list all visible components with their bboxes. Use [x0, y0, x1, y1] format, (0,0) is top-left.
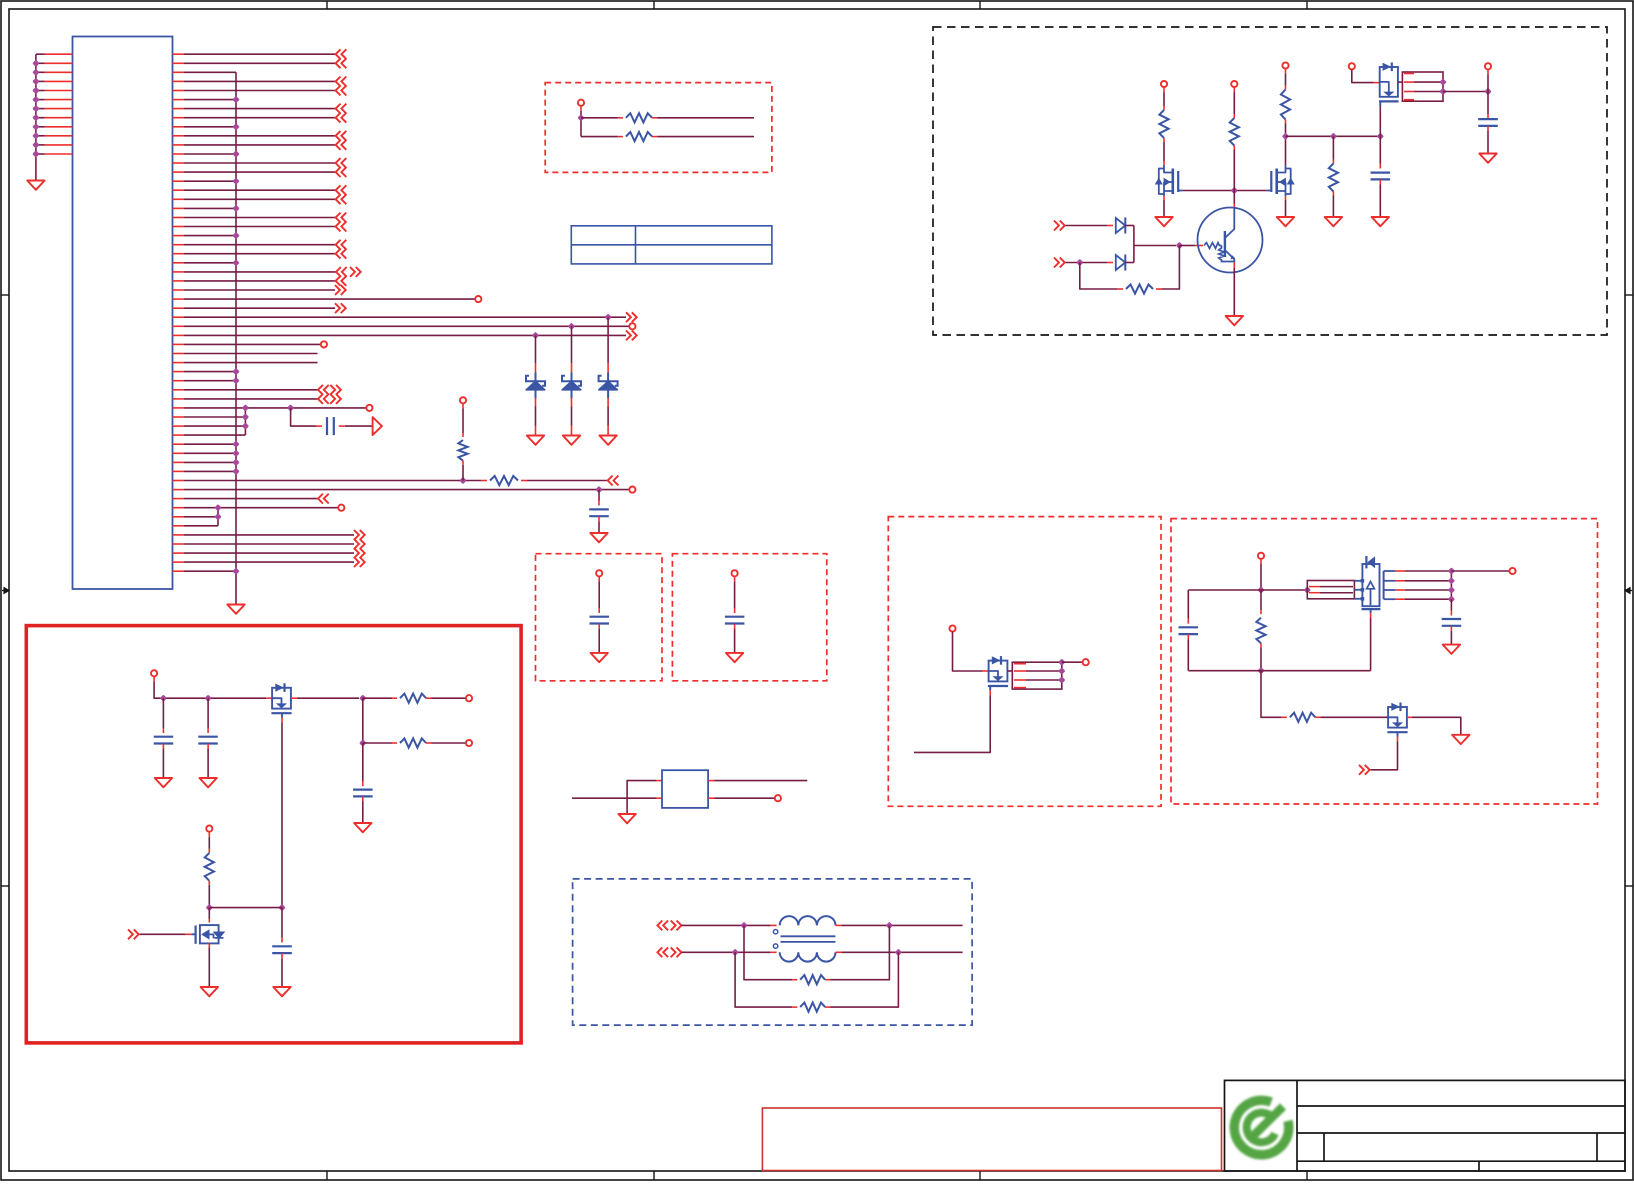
wire chevron to M5 gate	[140, 933, 192, 935]
wire R13 to ground	[1332, 192, 1334, 218]
chevron out row 37	[330, 385, 341, 395]
connector U1 right pin stubs	[173, 54, 185, 571]
junction base node	[1176, 242, 1183, 249]
filter U2 body	[662, 770, 708, 808]
wire M3 gate down to C7	[1379, 105, 1381, 169]
wire M6 drain to RP2	[1007, 670, 1012, 672]
junction zener D3 tap	[604, 314, 611, 321]
ground Q4 emitter	[1226, 316, 1243, 325]
junction P6 node	[577, 114, 584, 121]
ground C11	[155, 778, 172, 787]
junction left bus pin 10	[32, 132, 39, 139]
junction bus row 43	[232, 441, 239, 448]
port P17	[206, 826, 212, 832]
port row 30	[629, 323, 635, 329]
wire diode cathode join	[1133, 226, 1135, 263]
port resistor R7 top	[460, 397, 466, 403]
capacitor C15	[1442, 618, 1462, 620]
junction left bus pin 11	[32, 141, 39, 148]
wire C9 to ground	[598, 624, 600, 653]
junction bus row 20	[232, 232, 239, 239]
wire pin row 42	[184, 434, 245, 436]
wire P9 to R12	[1285, 69, 1287, 90]
diode D4	[1116, 218, 1126, 234]
wire M5 drain	[208, 908, 210, 923]
title block	[1225, 1080, 1626, 1171]
wire M3 drain to RP1	[1398, 81, 1403, 83]
junction bus row 36	[232, 377, 239, 384]
resistor pack RP3	[1307, 581, 1354, 599]
wire U2 right lower	[708, 797, 774, 799]
junction bus row 14	[232, 178, 239, 185]
sheet entry chevron pin row 15	[336, 185, 347, 195]
resistor pack RP1	[1402, 72, 1443, 101]
sheet entry chevron pin row 10	[336, 140, 347, 150]
junction bus row 5	[232, 96, 239, 103]
red dashed box load switch B	[1171, 519, 1598, 804]
wire R10 to Q2 drain	[1163, 138, 1165, 165]
capacitor C12	[198, 736, 218, 738]
junction left bus pin 9	[32, 123, 39, 130]
wire bottom rail	[1188, 670, 1370, 672]
wire P7 to R10	[1163, 87, 1165, 110]
diode D5	[1116, 255, 1126, 271]
chevron out row 28	[335, 303, 346, 313]
junction R12 node	[1282, 133, 1289, 140]
wire left pin bus to ground	[35, 54, 37, 180]
chevron in diode D5	[1054, 258, 1065, 268]
capacitor C6	[589, 508, 609, 510]
port row 50	[338, 505, 344, 511]
ground C14	[273, 987, 290, 996]
wire C10 to ground	[734, 624, 736, 653]
wire C14 to ground	[281, 953, 283, 987]
junction D5 anode tap	[1076, 259, 1083, 266]
sheet entry chevron pin row 4	[336, 86, 347, 96]
wire pin row 34	[184, 362, 318, 364]
chevron out T1 b	[671, 947, 682, 957]
wire port to resistor R7	[462, 404, 464, 438]
wire R14 to base node	[1156, 246, 1179, 290]
ground left pin bus	[27, 181, 44, 190]
wire C11 to ground	[162, 744, 164, 778]
red dashed box bulk cap 2	[672, 554, 826, 681]
chevron in row 49	[318, 494, 329, 504]
junction bottom rail	[1257, 667, 1264, 674]
wire R8 left	[581, 117, 623, 119]
red highlight box	[26, 626, 521, 1043]
junction bus row 35	[232, 368, 239, 375]
wire node 136 bus	[1286, 135, 1381, 137]
port P22	[1509, 568, 1515, 574]
zener D1	[526, 335, 545, 435]
wire pin row 38	[184, 398, 318, 400]
resistor R18	[800, 975, 825, 984]
wire out to C15	[1450, 599, 1452, 615]
notes box	[762, 1108, 1221, 1171]
port row 27	[475, 296, 481, 302]
zener D3	[599, 317, 618, 435]
wire R12 to node	[1285, 120, 1287, 166]
wire C13 to ground	[362, 797, 364, 824]
wire T1 row1 left	[681, 924, 776, 926]
wires right pins to sheet-entry chevrons	[184, 54, 336, 281]
port P20	[1083, 659, 1089, 665]
red dashed box load switch A	[888, 517, 1161, 807]
chevron in M5 gate	[128, 929, 139, 939]
junction bus row 8	[232, 123, 239, 130]
junction left bus pin 6	[32, 96, 39, 103]
resistor R19	[800, 1003, 825, 1012]
junction T1 row1 left	[740, 922, 747, 929]
wire pin row 51	[184, 516, 218, 518]
wire P10 to M3 source	[1352, 69, 1380, 82]
capacitor C7	[1371, 172, 1391, 174]
junction bus row 23	[232, 259, 239, 266]
wire pin row 50 to port	[184, 507, 338, 509]
chevron in row 47	[608, 476, 619, 486]
port P13	[732, 570, 738, 576]
ground C15	[1443, 645, 1460, 654]
common mode choke T1	[773, 916, 835, 962]
resistor R15	[400, 694, 426, 703]
chevron in diode D4	[1054, 221, 1065, 231]
ground C7	[1372, 217, 1389, 226]
wire pin row 47 segment a	[184, 480, 487, 482]
ground D1	[527, 436, 544, 445]
no-erc arrow marker	[373, 417, 382, 435]
wire P21 down	[1260, 559, 1262, 590]
border zone ticks left and right	[1, 295, 1633, 886]
capacitor C5 series	[326, 417, 328, 435]
wire T1 row2 right	[835, 951, 962, 953]
resistor R14	[1126, 284, 1153, 293]
resistor R21	[1290, 713, 1316, 722]
wire M6 gate run	[914, 690, 990, 752]
wire R15 to port	[426, 697, 465, 699]
resistor R11	[1230, 118, 1239, 146]
chevron in T1 b	[657, 947, 668, 957]
wire C7 to ground	[1379, 180, 1381, 218]
junction left bus pin 2	[32, 60, 39, 67]
wire R9 right	[652, 136, 754, 138]
ground D2	[563, 436, 580, 445]
junction gate node right	[278, 904, 285, 911]
wire chevron to D5	[1066, 262, 1114, 264]
sheet entry chevron pin row 1	[336, 58, 347, 68]
junction zener D2 tap	[568, 323, 575, 330]
junction row 41 joint	[242, 422, 249, 429]
wire Q4 emitter to ground	[1233, 262, 1235, 316]
border center arrow left	[2, 588, 9, 594]
wire R18 loop right	[825, 925, 889, 979]
mosfet Q2	[1155, 165, 1183, 196]
wire R11 to gate net	[1233, 146, 1235, 191]
wire pin row 53	[184, 534, 354, 536]
capacitor C9	[590, 616, 610, 618]
resistor R9	[626, 132, 652, 141]
ground M5 source	[201, 987, 218, 996]
wire to R13	[1332, 136, 1334, 163]
chevron in T1 a	[657, 921, 668, 931]
ground C9	[591, 653, 608, 662]
wire C8 to ground	[1487, 126, 1489, 154]
ground D3	[599, 436, 616, 445]
junction rail C11	[160, 695, 167, 702]
sheet entry chevron pin row 0	[336, 49, 347, 59]
wire pin row 31 zener net	[184, 334, 626, 336]
wire R20 bottom	[1260, 643, 1262, 670]
wire pin row 56	[184, 561, 354, 563]
ground M8	[1452, 735, 1469, 744]
wire pin row 52	[184, 525, 218, 527]
wire Q2 gate net	[1183, 190, 1267, 192]
wire base feedback lower	[1080, 263, 1123, 290]
wire R9 left	[581, 136, 623, 138]
wire pin row 55	[184, 552, 354, 554]
wire output node to C8	[1487, 92, 1489, 120]
mosfet M6	[988, 656, 1008, 690]
wire M4 drain out	[291, 697, 359, 699]
chevron out row 29	[626, 312, 637, 322]
chevron out row 53	[354, 530, 365, 540]
wire pin row 29 zener net	[184, 316, 626, 318]
port P18	[775, 795, 781, 801]
wire U2 right upper	[708, 780, 807, 782]
junction row 39 joint	[242, 404, 249, 411]
junction T1 row2 right	[895, 949, 902, 956]
sheet entry chevron pin row 3	[336, 77, 347, 87]
chevron out row 54	[354, 539, 365, 549]
junction row 51 joint	[214, 513, 221, 520]
chevron out T1 a	[671, 921, 682, 931]
resistor R10	[1159, 110, 1168, 138]
resistor R6 series	[490, 476, 518, 485]
mosfet M3	[1379, 63, 1399, 106]
wire C12 feed	[207, 698, 209, 733]
junction output node	[1484, 88, 1491, 95]
connector U1 body	[73, 37, 173, 590]
port row 32	[321, 341, 327, 347]
resistor R13	[1329, 164, 1338, 192]
wire D5 cathode	[1125, 262, 1134, 264]
chevron out row 24	[350, 267, 361, 277]
wire M8 right to ground	[1407, 717, 1461, 735]
wire M4 gate down	[281, 718, 283, 908]
digital transistor Q4	[1198, 208, 1263, 273]
resistor pack RP2	[1012, 662, 1062, 689]
wire gate node to C14	[281, 908, 283, 943]
chevron out row 56	[354, 557, 365, 567]
wire P13 to C10	[734, 576, 736, 613]
resistor R17	[205, 853, 214, 881]
sheet entry chevron pin row 22	[336, 249, 347, 259]
port P21	[1258, 553, 1264, 559]
wire pin row 48	[184, 489, 629, 491]
junction gate node left	[206, 904, 213, 911]
port P9	[1282, 62, 1288, 68]
logo	[1234, 1100, 1288, 1154]
sheet entry chevron pin row 12	[336, 158, 347, 168]
junction zener D1 tap	[532, 332, 539, 339]
red dashed box bulk cap 1	[536, 554, 663, 681]
junction M7 out 3	[1448, 596, 1455, 603]
junction left bus pin 12	[32, 150, 39, 157]
ground C10	[726, 653, 743, 662]
port P15	[466, 695, 472, 701]
wire join rows 40-42 vertical	[244, 408, 246, 435]
wire C15 to ground	[1450, 626, 1452, 645]
junction RP2 out a	[1058, 659, 1065, 666]
junction T1 row2 left	[731, 949, 738, 956]
junction RP2 out c	[1058, 676, 1065, 683]
port row 39	[366, 405, 372, 411]
junction row 50 joint	[214, 504, 221, 511]
wire R15 left	[363, 697, 397, 699]
wire M5 source to ground	[208, 943, 210, 987]
sheet entry chevron pin row 13	[336, 167, 347, 177]
wire R21 to M8 gate	[1315, 716, 1388, 718]
wire P14 down to rail	[154, 676, 272, 698]
port P10	[1349, 63, 1355, 69]
wire Q3 source to ground	[1285, 196, 1287, 217]
sheet entry chevron pin row 9	[336, 131, 347, 141]
junction top rail a	[1257, 586, 1264, 593]
port row 48	[629, 487, 635, 493]
chevron in row 24	[336, 267, 347, 277]
wire R20 top	[1260, 590, 1262, 614]
wire P8 to R11	[1233, 87, 1235, 118]
wire rail left drop	[1187, 590, 1189, 624]
wire R19 loop	[735, 952, 797, 1007]
wire P17 to R17	[208, 832, 210, 853]
port P11	[1485, 63, 1491, 69]
junction R13 tap	[1330, 133, 1337, 140]
wire cap C5 branch	[291, 408, 322, 426]
junction left bus pin 8	[32, 114, 39, 121]
ground C13	[354, 823, 371, 832]
wire base node into Q4	[1179, 245, 1203, 247]
wire out node down	[362, 698, 364, 743]
wire pin row 32	[184, 343, 321, 345]
wire pin row 37	[184, 389, 318, 391]
ground R13	[1325, 217, 1342, 226]
border zone ticks top and bottom	[327, 1, 1307, 1180]
port P7	[1161, 81, 1167, 87]
wire gate node link	[209, 907, 282, 909]
junction left bus pin 5	[32, 87, 39, 94]
capacitor C10	[725, 616, 745, 618]
chevron out row 31	[626, 331, 637, 341]
mosfet M7	[1354, 556, 1383, 613]
wire pin row 30 zener net	[184, 325, 629, 327]
junction T1 row1 right	[886, 922, 893, 929]
ground Q3 source	[1277, 217, 1294, 226]
wire pin row 41	[184, 425, 245, 427]
sheet entry chevron pin row 25	[336, 276, 347, 286]
wire R19 loop right	[825, 952, 898, 1007]
capacitor C14	[272, 945, 292, 947]
wire M7 out to port	[1451, 570, 1509, 572]
wire C11 feed	[162, 698, 164, 733]
chevron in M8 gate	[1359, 765, 1370, 775]
junction M7 out 2	[1448, 586, 1455, 593]
junction bus row 57	[232, 568, 239, 575]
sheet entry chevron pin row 16	[336, 194, 347, 204]
wire chevron to D4	[1066, 225, 1114, 227]
junction M7 out 1	[1448, 577, 1455, 584]
mosfet Q3	[1267, 165, 1295, 196]
wire RP1 to output node	[1443, 91, 1488, 93]
wire U2 left upper	[627, 781, 662, 814]
wire R17 to gate node	[208, 881, 210, 908]
ground C12	[199, 778, 216, 787]
mosfet M8	[1387, 703, 1407, 737]
junction cap branch tap	[287, 404, 294, 411]
resistor R8	[626, 113, 652, 122]
resistor R7	[458, 440, 467, 461]
port P6	[578, 100, 584, 106]
wire cap C5 to arrow	[339, 425, 373, 427]
wire cap C6 to ground	[598, 516, 600, 533]
chevron in row 37	[318, 385, 329, 395]
junction bus row 46	[232, 468, 239, 475]
junction bus row 44	[232, 450, 239, 457]
wire P6 down	[580, 106, 582, 137]
capacitor C11	[154, 736, 174, 738]
zener D2	[562, 326, 581, 435]
junction left bus pin 7	[32, 105, 39, 112]
port P16	[466, 740, 472, 746]
junction row 47 resistor tap	[459, 477, 466, 484]
junction left bus pin 3	[32, 69, 39, 76]
wires right pins to vertical bus	[184, 72, 236, 571]
junction bus row 17	[232, 205, 239, 212]
capacitor C8	[1478, 118, 1498, 120]
junction divider node	[359, 739, 366, 746]
wire pin row 49	[184, 498, 318, 500]
port P14	[151, 670, 157, 676]
chevron out row 26	[335, 285, 346, 295]
blue dashed box CAN filter	[573, 879, 973, 1025]
wire Q2 source to ground	[1163, 196, 1165, 217]
port P12	[596, 570, 602, 576]
wire pin row 47 segment b	[521, 480, 608, 482]
wire join rows 50-52	[217, 508, 219, 526]
capacitor C16	[1179, 626, 1199, 628]
connector U1 left pin stubs	[36, 54, 73, 154]
sheet entry chevron pin row 7	[336, 113, 347, 123]
junction row 48 cap tap	[595, 486, 602, 493]
wire R16 to port	[426, 742, 465, 744]
junction M7 out 0	[1448, 567, 1455, 574]
chevron in row 38	[318, 394, 329, 404]
wire pin row 27	[184, 298, 475, 300]
wire P19 to M6	[953, 632, 989, 671]
wire pin row 40	[184, 416, 245, 418]
wire pin row 33	[184, 353, 318, 355]
wire bottom node down	[1261, 671, 1287, 718]
ground C8	[1479, 154, 1496, 163]
port P19	[949, 625, 955, 631]
wire P12 to C9	[598, 576, 600, 613]
wire pin row 28	[184, 307, 335, 309]
junction RP1 out a	[1439, 78, 1446, 85]
junction rail C12	[204, 695, 211, 702]
mosfet M4	[271, 683, 291, 717]
wire resistor R7 to row 47	[462, 461, 464, 481]
wire divider to C13	[362, 743, 364, 786]
